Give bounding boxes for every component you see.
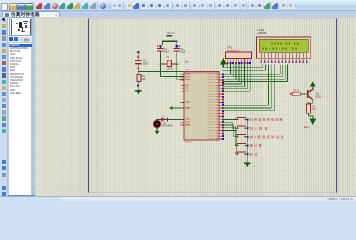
svg-text:LM016L: LM016L [258, 31, 268, 35]
resistor pack RP1 [225, 47, 251, 59]
buttons K1-K5 [222, 117, 283, 157]
svg-text:12MHz: 12MHz [166, 67, 174, 70]
svg-text:BELL: BELL [304, 127, 310, 129]
svg-text:00:00:00 00: 00:00:00 00 [262, 47, 297, 51]
svg-text:100: 100 [312, 109, 317, 111]
speaker LS1 [153, 120, 173, 129]
svg-text:D1: D1 [162, 116, 166, 118]
node RST top [138, 56, 140, 58]
svg-text:2009.01.18: 2009.01.18 [271, 42, 299, 46]
capacitor C2 [174, 46, 187, 53]
LCD LCD1 LM016L [256, 28, 310, 58]
wire XTAL1 net [160, 52, 184, 77]
svg-text:30pF: 30pF [164, 50, 170, 53]
wire bus P0 staircase [222, 64, 287, 91]
wire battery right down [176, 42, 178, 45]
wire LCD power [222, 65, 265, 71]
wire speaker to MCU [156, 118, 184, 120]
wire battery left down [161, 42, 163, 45]
svg-text:X1: X1 [166, 56, 170, 59]
svg-text:确认键: 确认键 [250, 143, 262, 148]
sheet border [88, 19, 337, 193]
node RST mid [138, 68, 140, 70]
node indicators battery [157, 45, 180, 47]
battery B1 [162, 31, 177, 42]
svg-text:R3: R3 [312, 106, 316, 108]
crystal X1 [160, 56, 179, 70]
svg-text:10uF: 10uF [143, 63, 149, 66]
power terminal VCC bus [220, 58, 227, 68]
svg-text:时间设置按键调整: 时间设置按键调整 [250, 117, 283, 122]
power terminal VCC transistor [310, 81, 316, 90]
svg-text:R2 1k: R2 1k [293, 90, 300, 92]
ground reset [135, 90, 142, 94]
capacitor C1 [157, 46, 170, 53]
svg-text:AT89C51: AT89C51 [185, 141, 193, 144]
resistor R2 base [290, 90, 308, 95]
svg-text:SPEAKER: SPEAKER [162, 124, 174, 127]
transistor Q1 [308, 89, 322, 100]
terminal arrow left [169, 106, 184, 109]
MCU right pins with state squares [208, 73, 224, 140]
svg-text:RP1: RP1 [228, 47, 233, 50]
ground speaker [155, 128, 159, 135]
wire buttons common [246, 120, 248, 163]
RP1 pins [227, 59, 252, 64]
svg-text:10k: 10k [142, 78, 147, 81]
wire VCC to RP1 [223, 64, 227, 68]
ground buttons [244, 162, 251, 167]
svg-text:复位: 复位 [250, 151, 258, 156]
diode D1 [161, 116, 168, 121]
op-amp U1 AT89C51 MCU body [184, 60, 219, 144]
svg-text:8550: 8550 [316, 95, 322, 98]
LCD pins [260, 53, 307, 63]
capacitor C3 [135, 58, 148, 68]
svg-text:RESPACK-8: RESPACK-8 [227, 49, 240, 52]
svg-text:加1按键: 加1按键 [250, 125, 268, 130]
wire XTAL2 net [177, 52, 184, 80]
wire RST to MCU [138, 69, 184, 71]
svg-text:B1 3V: B1 3V [168, 31, 175, 35]
resistor R3 [306, 100, 316, 116]
power terminal VCC reset [136, 50, 140, 56]
svg-text:U1: U1 [185, 60, 189, 64]
ground transistor [304, 116, 316, 129]
MCU left pins [181, 74, 190, 126]
wire LCD control RS RW E [222, 65, 274, 111]
svg-text:减1按键闹钟设置: 减1按键闹钟设置 [250, 134, 284, 139]
resistor R1 [137, 71, 146, 89]
svg-text:30pF: 30pF [180, 50, 186, 53]
